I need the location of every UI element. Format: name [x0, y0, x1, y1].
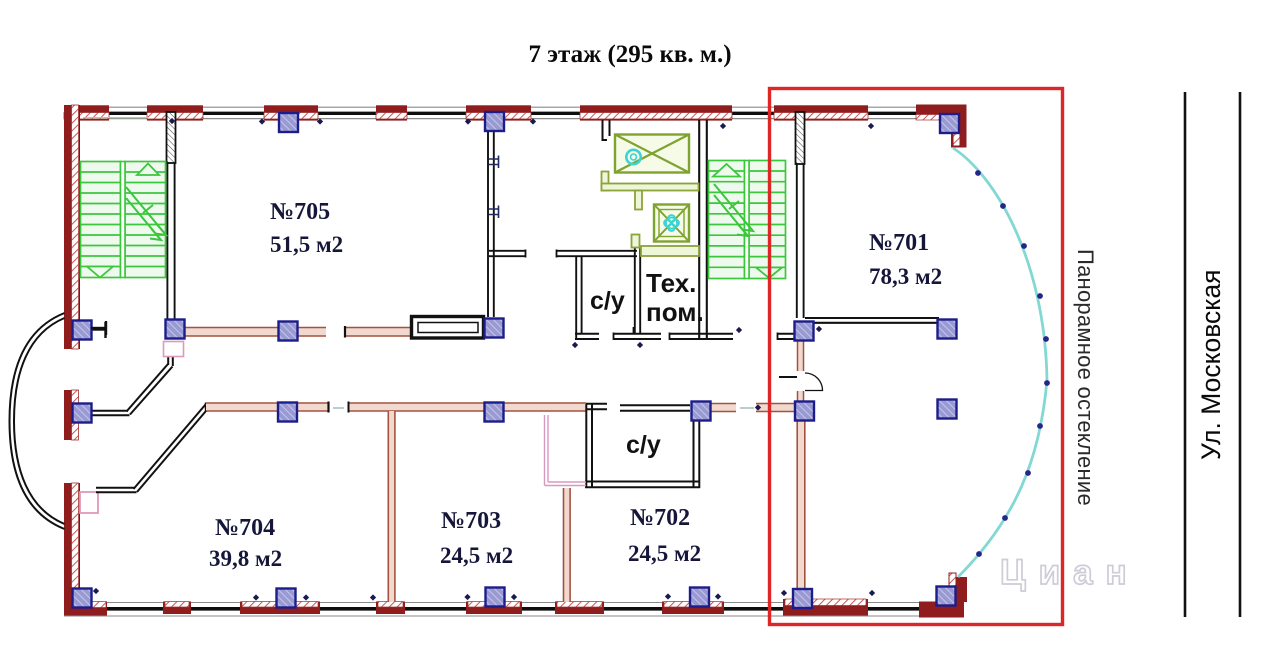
column room701 free — [938, 400, 957, 419]
column top-right corner — [940, 114, 959, 133]
elevator E2 — [654, 205, 689, 242]
wc lower left wall — [585, 404, 587, 488]
svg-text:24,5 м2: 24,5 м2 — [628, 541, 701, 566]
stairs left up arrow — [137, 164, 159, 176]
stairs left divider — [121, 162, 126, 278]
wall 701/702 salmon below door — [798, 391, 804, 403]
bay window arc left (double line) — [10, 313, 65, 529]
stub right of column C4 — [91, 327, 106, 329]
column bottom-right corner — [937, 587, 956, 606]
svg-text:7 этаж (295 кв. м.): 7 этаж (295 кв. м.) — [528, 41, 731, 68]
wall bottom-right corner block — [919, 573, 967, 618]
svg-text:с/у: с/у — [626, 431, 661, 459]
svg-text:78,3 м2: 78,3 м2 — [869, 264, 942, 289]
door arc 701 — [805, 373, 823, 391]
partition 704/703 salmon — [388, 411, 395, 602]
wall B7 bay lower zigzag — [96, 405, 209, 493]
column bottom wall 4 — [793, 589, 812, 608]
wall left pier B — [64, 390, 79, 440]
wall black segment corridor (left of wc door) — [586, 403, 607, 405]
wall top exterior: thick window mid line — [109, 112, 916, 115]
wc upper left wall — [575, 256, 577, 339]
glazing arc cyan — [953, 148, 1047, 577]
stairs left fill — [80, 161, 166, 278]
svg-text:№704: №704 — [215, 515, 275, 541]
tick marks navy — [93, 118, 875, 601]
svg-text:Циан: Циан — [1000, 553, 1140, 592]
svg-text:Тех.: Тех. — [646, 268, 696, 298]
elevator shaft olive band upper — [602, 172, 700, 257]
stairs left down arrow — [87, 267, 113, 278]
wc upper top wall — [556, 250, 637, 252]
wall B6 bay upper zigzag — [91, 347, 173, 415]
stairs middle fill — [708, 160, 786, 279]
wall B3 thick shaft wall — [412, 317, 484, 339]
stair top boundary green line — [83, 117, 148, 119]
svg-text:№703: №703 — [441, 508, 501, 534]
door stub at stairwell bottom — [91, 328, 105, 330]
column room701 wall right — [938, 320, 957, 339]
door stub black — [779, 376, 797, 378]
elevator E1 — [615, 135, 689, 173]
svg-text:Ул. Московская: Ул. Московская — [1196, 269, 1226, 460]
column stairwell corner — [166, 320, 185, 339]
column top wall 1 — [279, 113, 298, 132]
wall bottom pier blocks — [163, 599, 868, 616]
street line 2 — [1239, 92, 1242, 617]
column room701 door — [795, 402, 814, 421]
column bottom-left corner — [73, 589, 92, 608]
wall top pier blocks (dark red + hatch) — [64, 105, 868, 120]
wall 701 left double — [796, 164, 798, 318]
wc upper top wall stub from B2 — [489, 250, 526, 252]
pink lowered wall L at wc — [545, 415, 587, 486]
wall B4 corridor upper salmon — [183, 326, 411, 338]
column corridor lower 1 — [278, 403, 297, 422]
partition 702/701 salmon — [797, 421, 805, 600]
wc lower right wall — [693, 411, 695, 488]
stairs middle run diagonal — [714, 184, 753, 236]
stairs middle treads — [709, 161, 786, 279]
stairs middle divider — [745, 161, 750, 279]
stairwell left: right wall double line — [166, 163, 168, 319]
column corridor lower 2 — [485, 403, 504, 422]
wall bottom exterior lines — [64, 603, 964, 617]
wall top-right corner block — [916, 105, 967, 148]
svg-text:24,5 м2: 24,5 м2 — [440, 543, 513, 568]
svg-text:пом.: пом. — [646, 297, 704, 327]
wc upper / tech bottom walls — [575, 327, 796, 340]
svg-text:Панорамное остекление: Панорамное остекление — [1073, 249, 1098, 506]
svg-text:51,5 м2: 51,5 м2 — [270, 232, 343, 257]
wall left pier C — [64, 483, 80, 615]
wc lower top wall — [620, 404, 690, 406]
wc lower bottom wall — [585, 481, 700, 483]
column room701 wall left — [795, 322, 814, 341]
stairs left treads — [81, 162, 166, 278]
tech room left wall — [634, 247, 636, 334]
tech room right wall / stair left wall — [698, 120, 700, 339]
column corridor lower 3 — [692, 402, 711, 421]
svg-text:№705: №705 — [270, 199, 330, 225]
column corridor upper 2 — [485, 319, 504, 338]
stairs middle up arrow — [713, 164, 740, 177]
wall bottom-left corner block — [64, 602, 107, 616]
glazing arc dots — [975, 170, 1050, 557]
niche pink at B6 top — [164, 342, 184, 357]
wall B2 room705 right — [487, 131, 489, 317]
elevator E1 icon — [626, 150, 640, 164]
column bottom wall 1 — [277, 589, 296, 608]
column bottom wall 2 — [486, 588, 505, 607]
svg-text:№701: №701 — [869, 230, 929, 256]
wall B8 corridor lower salmon band — [206, 402, 796, 413]
column corridor upper 1 — [279, 322, 298, 341]
wall top exterior: thin window lines — [64, 107, 966, 118]
svg-text:с/у: с/у — [590, 287, 625, 315]
highlight red rectangle — [770, 89, 1063, 625]
street line 1 — [1184, 92, 1187, 617]
wall 701 interior horizontal — [805, 317, 939, 319]
elevator lobby stubs at top wall — [603, 120, 610, 140]
column top wall 2 — [485, 112, 504, 131]
wall left pier A — [64, 105, 80, 349]
partition 703/702 salmon — [564, 488, 571, 602]
svg-text:39,8 м2: 39,8 м2 — [209, 546, 282, 571]
wall 701 left hatched top — [796, 112, 805, 164]
stairs middle down arrow — [756, 268, 782, 279]
niche pink on pier C — [80, 492, 98, 513]
stairs left run diagonal — [126, 187, 166, 240]
column bottom wall 3 — [690, 588, 709, 607]
elevator E2 icon — [664, 215, 679, 231]
svg-text:№702: №702 — [630, 505, 690, 531]
wall 701/702 salmon above door — [798, 340, 804, 371]
column bay upper — [73, 321, 92, 340]
stairwell left: right wall hatched top — [167, 112, 176, 163]
column bay middle — [73, 404, 92, 423]
wall ties on B2 — [489, 156, 499, 219]
